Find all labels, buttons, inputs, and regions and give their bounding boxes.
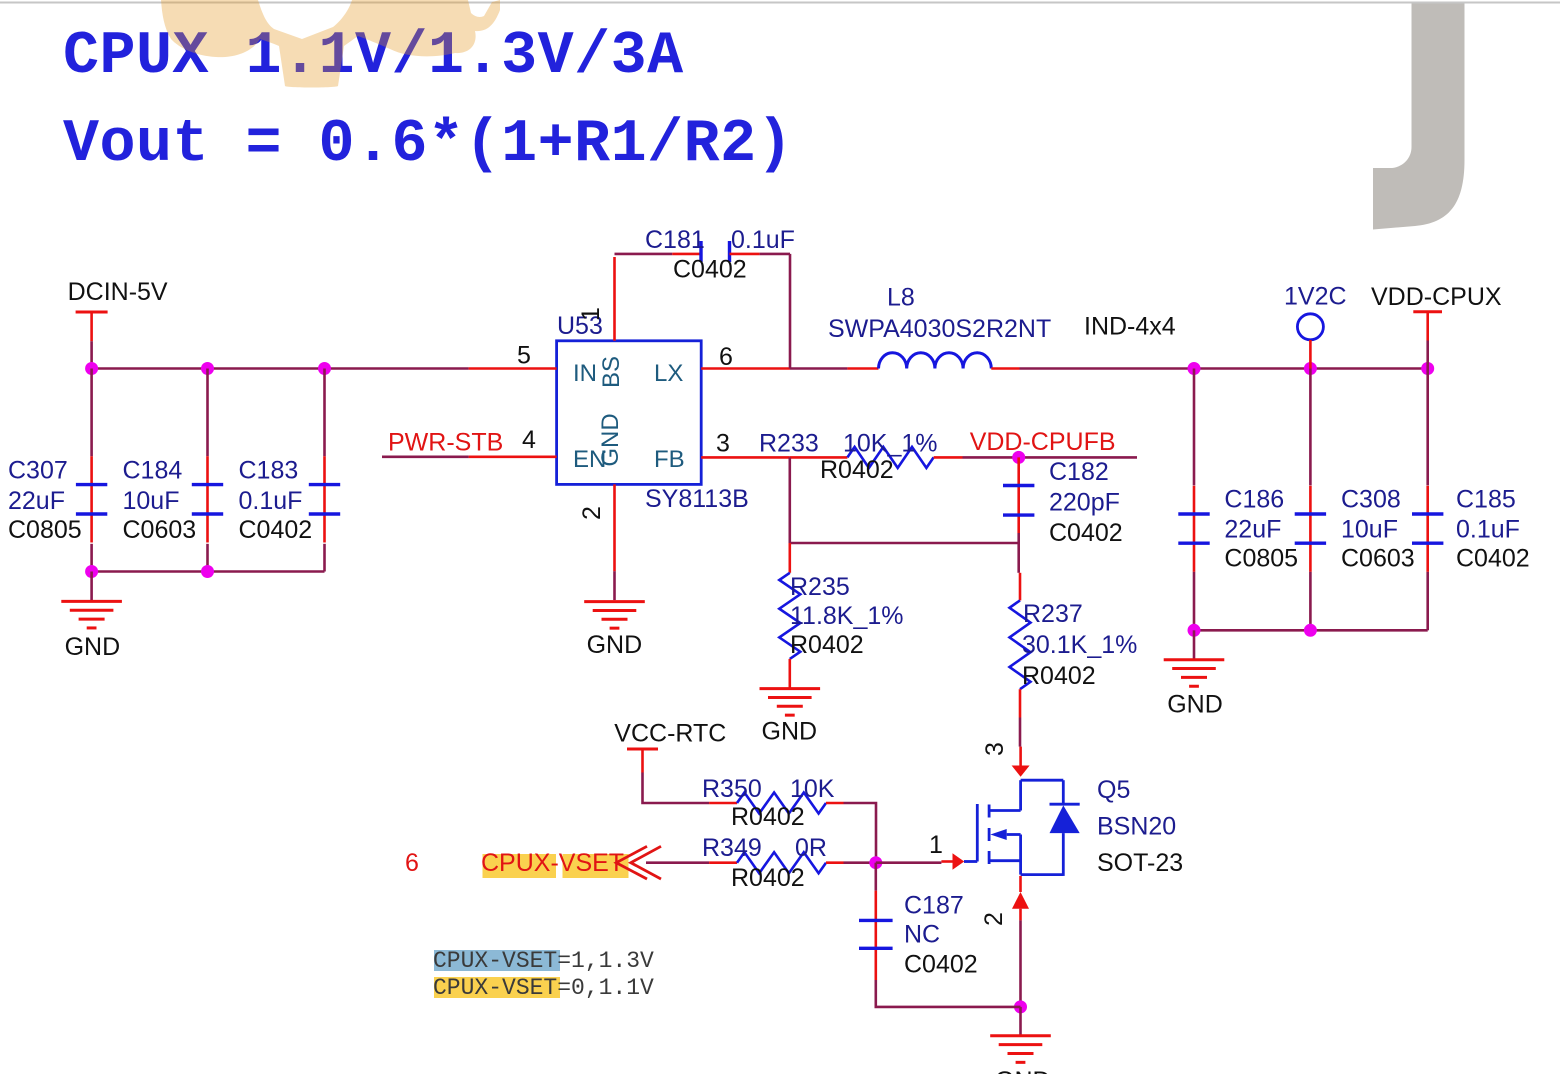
wire C184 lower branch	[206, 544, 209, 572]
Q5 pin 1 lead	[941, 860, 952, 863]
svg-text:22uF: 22uF	[8, 487, 65, 515]
transistor Q5 BSN20	[1021, 779, 1064, 782]
svg-text:5: 5	[517, 342, 531, 370]
wire C307 upper branch	[90, 369, 93, 457]
wire output gnd bus	[1194, 629, 1428, 632]
wire C307 lower branch	[90, 544, 93, 572]
svg-text:R233: R233	[759, 430, 819, 458]
R350 left pin	[709, 802, 737, 805]
wire chip gnd stem	[613, 571, 616, 600]
svg-text:C181: C181	[645, 226, 705, 254]
R233 right pin	[934, 456, 963, 459]
power symbol VDD-CPUX	[1413, 310, 1442, 313]
wire R237 branch	[1017, 543, 1020, 573]
R237 bottom pin	[1019, 689, 1022, 717]
junction gnd bus / C184	[201, 565, 214, 578]
wire VCC-RTC to R350	[643, 773, 710, 804]
svg-text:10K: 10K	[790, 775, 835, 803]
note highlight yellow	[434, 977, 560, 998]
svg-text:Q5: Q5	[1097, 776, 1130, 804]
svg-text:GND: GND	[65, 633, 121, 661]
wire node to Q5 gate	[876, 861, 942, 864]
wire VDD-CPUX bus	[1020, 367, 1428, 370]
junction out gnd / C186	[1188, 624, 1201, 637]
resistor R233	[847, 447, 933, 468]
wire C187 to gnd node	[876, 980, 1021, 1007]
svg-text:C0402: C0402	[239, 516, 313, 544]
junction input bus / C183	[318, 362, 331, 375]
capacitor C181 loop	[615, 253, 673, 256]
wire C186 lower branch	[1193, 572, 1196, 631]
junction input bus / C307	[85, 362, 98, 375]
svg-text:GND: GND	[995, 1067, 1051, 1074]
ground output	[1164, 658, 1225, 661]
junction out gnd / C308	[1304, 624, 1317, 637]
svg-text:C307: C307	[8, 457, 68, 485]
svg-text:C308: C308	[1341, 486, 1401, 514]
Q5 body arrow	[990, 829, 1006, 840]
highlight CPUX-VSET label	[483, 854, 557, 878]
svg-text:FB: FB	[654, 446, 685, 473]
svg-text:10uF: 10uF	[1341, 516, 1398, 544]
Q5 pin 2 lead	[1019, 909, 1022, 921]
wire DCIN-5V drop	[90, 341, 93, 368]
svg-text:L8: L8	[887, 283, 915, 311]
svg-text:10uF: 10uF	[123, 487, 180, 515]
svg-text:C0805: C0805	[8, 516, 82, 544]
svg-text:2: 2	[980, 912, 1008, 926]
R349 right pin	[826, 861, 844, 864]
junction out bus / VDD-CPUX	[1421, 362, 1434, 375]
R350 right pin	[826, 802, 844, 805]
wire C185 lower branch	[1426, 572, 1429, 631]
L8 left pin	[847, 367, 878, 370]
svg-text:C183: C183	[239, 457, 299, 485]
svg-text:C182: C182	[1049, 458, 1109, 486]
pin 4 EN	[469, 455, 557, 458]
op-amp U53 SY8113B body	[557, 341, 702, 485]
wire C186 upper branch	[1193, 369, 1196, 486]
pin 3 arrow	[1012, 766, 1030, 777]
off-page connector chevrons	[616, 846, 647, 879]
svg-text:VDD-CPUFB: VDD-CPUFB	[970, 428, 1116, 456]
wire input bus DCIN-5V net	[92, 367, 469, 370]
pin 2 arrow	[1012, 892, 1029, 909]
wire FB branch down	[788, 457, 791, 543]
pin 1 BS	[613, 257, 616, 341]
wire R237 to Q5	[1019, 718, 1022, 747]
svg-text:C186: C186	[1224, 486, 1284, 514]
R237 top pin	[1019, 573, 1022, 601]
svg-text:VCC-RTC: VCC-RTC	[614, 720, 726, 748]
svg-text:3: 3	[716, 430, 730, 458]
wire R350 to node	[844, 803, 877, 863]
watermark J letter	[1373, 4, 1465, 230]
svg-text:BSN20: BSN20	[1097, 813, 1176, 841]
svg-text:1: 1	[929, 831, 943, 859]
resistor R235	[779, 573, 800, 659]
svg-text:SY8113B: SY8113B	[645, 485, 749, 513]
pin 2 GND	[613, 484, 616, 571]
svg-text:0.1uF: 0.1uF	[1456, 516, 1520, 544]
capacitor C307	[90, 456, 93, 542]
svg-text:30.1K_1%: 30.1K_1%	[1022, 631, 1137, 659]
wire LX to L8	[790, 367, 847, 370]
wire R233 left pin	[789, 456, 847, 459]
pin 1 arrow	[953, 853, 965, 870]
junction Q5 source / C187 / gnd	[1014, 1000, 1027, 1013]
pin 5 IN	[469, 367, 557, 370]
wire CPUX-VSET net	[646, 861, 709, 864]
svg-text:LX: LX	[654, 360, 683, 387]
wire gnd stem	[90, 572, 93, 602]
R235 top pin	[788, 543, 791, 573]
junction gnd bus / C307	[85, 565, 98, 578]
capacitor C185	[1426, 486, 1429, 572]
junction VDD-CPUFB / C182	[1012, 451, 1025, 464]
Q5 pin 2 lead upper	[1019, 876, 1022, 892]
ground input	[61, 600, 122, 603]
svg-text:SWPA4030S2R2NT: SWPA4030S2R2NT	[828, 315, 1051, 343]
resistor R237	[1010, 600, 1031, 689]
svg-text:R350: R350	[702, 775, 762, 803]
svg-text:GND: GND	[762, 718, 818, 746]
watermark logo blob	[161, 0, 500, 88]
svg-text:IND-4x4: IND-4x4	[1084, 313, 1176, 341]
wire gnd stem Q5	[1019, 1007, 1022, 1036]
pin 3 FB	[701, 456, 789, 459]
svg-text:C0402: C0402	[1456, 545, 1530, 573]
capacitor C182	[1017, 457, 1020, 533]
R235 bottom pin	[788, 659, 791, 689]
power symbol DCIN-5V	[76, 311, 108, 314]
wire C183 upper branch	[323, 369, 326, 457]
capacitor C183	[323, 456, 326, 542]
svg-text:CPUX-VSET=1,1.3V: CPUX-VSET=1,1.3V	[433, 948, 654, 974]
junction VSET node	[869, 856, 882, 869]
wire C181 to LX	[760, 253, 790, 256]
Q5 pin 3 lead	[1019, 747, 1022, 766]
svg-text:C0603: C0603	[123, 516, 197, 544]
test point 1V2C	[1297, 314, 1323, 340]
svg-text:R0402: R0402	[731, 803, 805, 831]
svg-text:C0402: C0402	[1049, 519, 1123, 547]
junction input bus / C184	[201, 362, 214, 375]
svg-text:CPUX-VSET: CPUX-VSET	[481, 849, 624, 877]
junction out bus / 1V2C	[1304, 362, 1317, 375]
svg-text:0R: 0R	[795, 834, 827, 862]
svg-text:CPUX-VSET=0,1.1V: CPUX-VSET=0,1.1V	[433, 975, 654, 1001]
svg-text:11.8K_1%: 11.8K_1%	[790, 602, 904, 630]
wire C185 upper branch	[1426, 369, 1429, 486]
svg-text:R0402: R0402	[820, 456, 894, 484]
R349 left pin	[709, 861, 737, 864]
svg-text:0.1uF: 0.1uF	[239, 487, 303, 515]
svg-text:C0805: C0805	[1224, 545, 1298, 573]
capacitor C187 branch	[874, 863, 877, 891]
svg-text:C0402: C0402	[904, 950, 978, 978]
wire C184 upper branch	[206, 369, 209, 457]
svg-text:R235: R235	[790, 573, 850, 601]
svg-text:R0402: R0402	[1022, 662, 1096, 690]
svg-text:2: 2	[578, 506, 606, 520]
svg-text:R349: R349	[702, 834, 762, 862]
svg-text:SOT-23: SOT-23	[1097, 849, 1183, 877]
svg-text:6: 6	[719, 343, 733, 371]
wire C308 upper branch	[1309, 369, 1312, 486]
svg-text:Vout = 0.6*(1+R1/R2): Vout = 0.6*(1+R1/R2)	[63, 111, 793, 179]
svg-text:IN: IN	[573, 360, 597, 387]
resistor R349	[737, 852, 826, 873]
Q5 body diode	[1050, 805, 1080, 833]
svg-text:DCIN-5V: DCIN-5V	[68, 278, 168, 306]
svg-text:GND: GND	[597, 413, 624, 466]
svg-text:C0603: C0603	[1341, 545, 1415, 573]
wire VDD-CPUFB net	[963, 456, 1138, 459]
svg-text:R0402: R0402	[790, 631, 864, 659]
capacitor C184	[206, 456, 209, 542]
wire R349 to node	[844, 861, 876, 864]
ground U53	[584, 600, 645, 603]
svg-text:C185: C185	[1456, 486, 1516, 514]
ground Q5	[990, 1034, 1051, 1037]
svg-text:C184: C184	[123, 457, 183, 485]
svg-text:BS: BS	[598, 356, 625, 388]
svg-text:GND: GND	[1167, 691, 1223, 719]
svg-text:4: 4	[522, 426, 536, 454]
svg-text:10K_1%: 10K_1%	[843, 430, 938, 458]
svg-text:R0402: R0402	[731, 864, 805, 892]
wire divider connector	[790, 542, 1019, 545]
note highlight blue	[434, 950, 560, 971]
svg-text:0.1uF: 0.1uF	[731, 226, 795, 254]
ground R235	[760, 687, 821, 690]
inductor L8	[879, 353, 992, 369]
L8 right pin	[991, 367, 1019, 370]
wire input gnd bus	[92, 570, 325, 573]
wire out gnd stem	[1193, 630, 1196, 659]
svg-text:22uF: 22uF	[1224, 516, 1281, 544]
capacitor C308	[1309, 486, 1312, 572]
wire C183 lower branch	[323, 544, 326, 572]
wire PWR-STB net	[382, 455, 469, 458]
junction out bus / C186	[1188, 362, 1201, 375]
svg-text:GND: GND	[587, 631, 643, 659]
svg-text:C0402: C0402	[673, 256, 747, 284]
wire Q5 source to gnd	[1019, 920, 1022, 1007]
svg-text:VDD-CPUX: VDD-CPUX	[1371, 283, 1502, 311]
svg-text:1V2C: 1V2C	[1284, 283, 1347, 311]
svg-text:1: 1	[577, 307, 605, 321]
svg-text:C187: C187	[904, 892, 964, 920]
pin 6 LX	[701, 367, 790, 370]
svg-text:R237: R237	[1023, 600, 1083, 628]
svg-text:NC: NC	[904, 921, 940, 949]
svg-text:3: 3	[981, 742, 1009, 756]
svg-text:PWR-STB: PWR-STB	[388, 428, 503, 456]
frame top border line	[0, 2, 1560, 4]
capacitor C186	[1193, 486, 1196, 572]
svg-text:220pF: 220pF	[1049, 489, 1120, 517]
power symbol VCC-RTC	[627, 748, 658, 751]
resistor R350	[737, 793, 826, 814]
svg-text:6: 6	[405, 849, 419, 877]
wire C308 lower branch	[1309, 572, 1312, 631]
